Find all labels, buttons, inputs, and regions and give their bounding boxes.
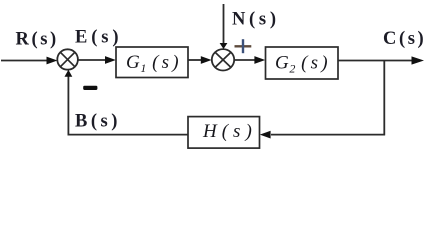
svg-text:E(s): E(s) xyxy=(75,28,122,48)
node takeoff wire down xyxy=(383,61,385,136)
block H xyxy=(188,117,260,149)
svg-text:R(s): R(s) xyxy=(16,30,59,50)
wire N(s) input xyxy=(223,4,225,44)
arrowhead output xyxy=(412,56,425,64)
arrowhead into S2 xyxy=(201,56,212,64)
wire takeoff to H xyxy=(271,134,385,136)
minus sign at S1 feedback input xyxy=(83,86,97,90)
wire R(s) input xyxy=(1,60,47,62)
arrowhead into summing junction S1 xyxy=(47,57,58,65)
block G2 xyxy=(266,47,339,79)
arrowhead into G1 xyxy=(105,56,116,64)
arrowhead N into S2 xyxy=(220,43,228,49)
wire C(s) output xyxy=(338,60,412,62)
svg-text:B(s): B(s) xyxy=(75,112,121,132)
wire G1 to summing junction S2 xyxy=(188,59,201,61)
svg-text:G1(s): G1(s) xyxy=(126,52,182,75)
svg-text:C(s): C(s) xyxy=(383,29,426,49)
svg-text:G2(s): G2(s) xyxy=(275,53,331,76)
block G1 xyxy=(116,47,188,78)
plus sign at S2 xyxy=(235,39,252,53)
arrowhead into H xyxy=(260,131,271,139)
wire S1 to G1 xyxy=(78,59,106,61)
svg-text:H(s): H(s) xyxy=(202,121,257,142)
wire S2 to G2 xyxy=(234,59,255,61)
summing junction S2 xyxy=(212,49,234,70)
wire H to S1 feedback xyxy=(68,77,188,135)
svg-text:N(s): N(s) xyxy=(232,10,280,30)
arrowhead into G2 xyxy=(254,56,265,64)
arrowhead feedback into S1 xyxy=(65,70,73,77)
summing junction S1 xyxy=(57,49,78,69)
